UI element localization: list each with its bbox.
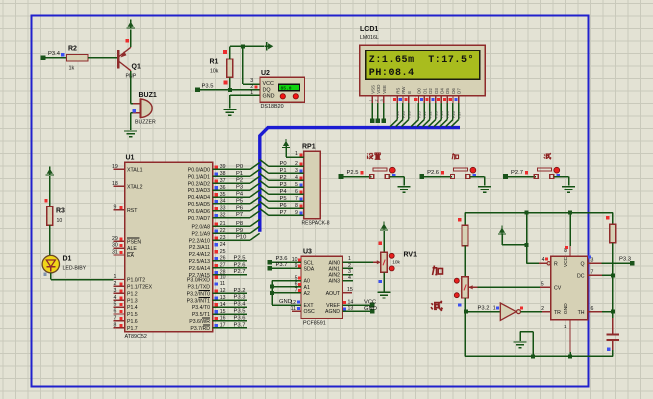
svg-text:U2: U2 — [261, 70, 270, 77]
svg-text:P9: P9 — [236, 228, 243, 234]
svg-text:P2.6: P2.6 — [427, 170, 439, 176]
svg-text:P2.7: P2.7 — [234, 269, 246, 275]
svg-text:RP1: RP1 — [302, 144, 316, 151]
svg-text:XTAL2: XTAL2 — [127, 184, 143, 190]
svg-text:P20: P20 — [396, 111, 400, 118]
svg-text:3: 3 — [380, 99, 384, 101]
svg-text:5: 5 — [541, 282, 544, 288]
svg-text:P22: P22 — [429, 111, 433, 118]
svg-text:P2.0/A8: P2.0/A8 — [192, 225, 211, 231]
svg-text:P1.3: P1.3 — [127, 298, 138, 304]
svg-text:EA: EA — [127, 253, 134, 259]
svg-text:PH:08.4: PH:08.4 — [369, 68, 415, 79]
svg-text:P0.1/AD1: P0.1/AD1 — [188, 174, 210, 180]
svg-text:AIN3: AIN3 — [328, 279, 340, 285]
svg-text:P3.5: P3.5 — [202, 84, 214, 90]
svg-text:SDA: SDA — [304, 267, 315, 273]
svg-text:LCD1: LCD1 — [360, 26, 378, 33]
svg-text:VSS: VSS — [370, 85, 375, 94]
svg-text:D7: D7 — [457, 88, 462, 94]
svg-text:4: 4 — [348, 275, 351, 281]
svg-text:2: 2 — [295, 161, 298, 167]
svg-text:18: 18 — [112, 181, 118, 187]
svg-text:RV1: RV1 — [404, 252, 418, 259]
svg-text:P23: P23 — [435, 111, 439, 118]
svg-text:P0.7/AD7: P0.7/AD7 — [188, 216, 210, 222]
svg-text:TH: TH — [578, 310, 585, 316]
svg-text:P3.4: P3.4 — [48, 51, 61, 57]
svg-text:4: 4 — [295, 175, 298, 181]
svg-text:P3.4: P3.4 — [234, 302, 247, 308]
svg-text:6: 6 — [295, 282, 298, 288]
svg-text:T:17.5°: T:17.5° — [428, 54, 474, 66]
svg-text:D0: D0 — [417, 88, 422, 94]
svg-text:P5: P5 — [236, 198, 243, 204]
svg-text:2: 2 — [541, 306, 544, 312]
svg-text:VREF: VREF — [326, 303, 340, 309]
svg-text:VCC: VCC — [364, 299, 376, 305]
svg-text:P3.7: P3.7 — [276, 262, 288, 268]
svg-text:P0.5/AD5: P0.5/AD5 — [188, 202, 210, 208]
svg-text:P2.6: P2.6 — [234, 262, 246, 268]
svg-text:P26: P26 — [452, 111, 456, 118]
svg-text:1k: 1k — [69, 66, 75, 72]
svg-text:P2.4/A12: P2.4/A12 — [189, 252, 210, 258]
svg-text:7: 7 — [114, 316, 117, 322]
svg-text:1: 1 — [295, 151, 298, 157]
svg-text:ALE: ALE — [127, 246, 137, 252]
svg-text:VCC: VCC — [563, 256, 569, 267]
svg-text:P3.2/INT0: P3.2/INT0 — [187, 291, 210, 297]
svg-text:R2: R2 — [68, 46, 77, 53]
svg-text:P2.5: P2.5 — [347, 170, 359, 176]
svg-text:1: 1 — [348, 256, 351, 262]
svg-text:P7: P7 — [280, 210, 287, 216]
svg-text:AIN1: AIN1 — [328, 267, 340, 273]
svg-text:3: 3 — [114, 288, 117, 294]
svg-text:30: 30 — [112, 243, 118, 249]
svg-text:LED-BIBY: LED-BIBY — [63, 266, 87, 272]
svg-text:15: 15 — [347, 287, 353, 293]
svg-text:D4: D4 — [439, 88, 444, 94]
svg-text:P2.7: P2.7 — [511, 170, 523, 176]
svg-text:DS18B20: DS18B20 — [261, 104, 284, 110]
svg-text:P2: P2 — [236, 178, 243, 184]
svg-text:7: 7 — [295, 288, 298, 294]
svg-text:VEE: VEE — [382, 85, 387, 94]
svg-text:8: 8 — [295, 203, 298, 209]
svg-text:EXT: EXT — [304, 303, 315, 309]
svg-text:P6: P6 — [236, 205, 243, 211]
svg-text:25: 25 — [220, 249, 226, 255]
svg-text:P3.7/RD: P3.7/RD — [190, 326, 210, 332]
svg-text:RS: RS — [395, 88, 400, 94]
svg-text:6: 6 — [591, 306, 594, 312]
svg-text:RESPACK-8: RESPACK-8 — [302, 221, 330, 227]
svg-text:P3.5: P3.5 — [234, 309, 246, 315]
svg-text:P1: P1 — [236, 171, 243, 177]
svg-text:PSEN: PSEN — [127, 239, 141, 245]
svg-text:9: 9 — [295, 210, 298, 216]
svg-text:P3.7: P3.7 — [234, 322, 246, 328]
svg-text:OSC: OSC — [304, 309, 315, 315]
svg-text:5: 5 — [295, 182, 298, 188]
svg-text:P20: P20 — [417, 111, 421, 118]
svg-text:P24: P24 — [440, 111, 444, 118]
svg-text:P1.4: P1.4 — [127, 305, 138, 311]
svg-text:P27: P27 — [458, 111, 462, 118]
svg-text:2: 2 — [374, 99, 378, 101]
svg-text:P8: P8 — [236, 221, 243, 227]
svg-text:TR: TR — [554, 310, 561, 316]
svg-text:U1: U1 — [126, 155, 135, 162]
svg-text:Q1: Q1 — [132, 64, 141, 71]
svg-text:1: 1 — [114, 274, 117, 280]
svg-text:P3.6/WR: P3.6/WR — [189, 319, 210, 325]
svg-text:RW: RW — [401, 86, 406, 94]
svg-text:D1: D1 — [422, 88, 427, 94]
svg-text:11: 11 — [220, 281, 225, 287]
svg-text:P0: P0 — [280, 161, 287, 167]
svg-text:CV: CV — [554, 285, 562, 291]
svg-text:R3: R3 — [56, 208, 65, 215]
svg-text:A1: A1 — [304, 285, 310, 291]
svg-text:PCF8591: PCF8591 — [303, 321, 326, 327]
svg-text:2: 2 — [348, 263, 351, 269]
svg-text:4: 4 — [542, 257, 545, 263]
svg-text:6: 6 — [295, 189, 298, 195]
svg-text:U3: U3 — [303, 249, 312, 256]
svg-text:P0.4/AD4: P0.4/AD4 — [188, 195, 210, 201]
svg-text:4: 4 — [114, 295, 117, 301]
svg-text:5: 5 — [295, 275, 298, 281]
svg-text:9: 9 — [114, 204, 117, 210]
svg-text:P3.1/TXD: P3.1/TXD — [188, 285, 211, 291]
svg-text:1: 1 — [369, 99, 373, 101]
svg-text:SCL: SCL — [304, 260, 314, 266]
svg-text:10k: 10k — [392, 260, 400, 266]
svg-text:RST: RST — [127, 208, 138, 214]
svg-text:P25: P25 — [446, 111, 450, 118]
svg-text:P0: P0 — [236, 164, 243, 170]
svg-text:P5: P5 — [280, 196, 287, 202]
svg-text:13: 13 — [348, 306, 354, 312]
svg-text:8: 8 — [114, 322, 117, 328]
svg-text:10k: 10k — [210, 69, 219, 75]
svg-text:P2.5/A13: P2.5/A13 — [189, 259, 210, 265]
svg-text:P0.0/AD0: P0.0/AD0 — [188, 168, 210, 174]
svg-text:P2.1/A9: P2.1/A9 — [192, 231, 211, 237]
svg-text:AIN0: AIN0 — [328, 260, 340, 266]
svg-text:VCC: VCC — [263, 81, 274, 87]
svg-text:Z:1.65m: Z:1.65m — [369, 55, 415, 66]
svg-text:P3.2: P3.2 — [478, 306, 490, 312]
svg-text:GND: GND — [263, 93, 275, 99]
svg-text:11: 11 — [291, 306, 296, 312]
svg-text:3: 3 — [295, 168, 298, 174]
svg-text:DC: DC — [577, 274, 585, 280]
svg-text:VDD: VDD — [376, 85, 381, 94]
svg-text:D1: D1 — [63, 256, 72, 263]
svg-text:GND: GND — [364, 306, 377, 312]
svg-text:P0.2/AD2: P0.2/AD2 — [188, 181, 210, 187]
svg-text:P3.5/T1: P3.5/T1 — [192, 312, 210, 318]
svg-text:P7: P7 — [236, 212, 243, 218]
svg-text:A0: A0 — [304, 279, 310, 285]
svg-text:P21: P21 — [423, 111, 427, 118]
svg-text:P20: P20 — [408, 111, 412, 118]
svg-text:XTAL1: XTAL1 — [127, 168, 143, 174]
svg-text:D6: D6 — [451, 88, 456, 94]
svg-text:D3: D3 — [434, 88, 439, 94]
svg-text:8: 8 — [564, 248, 567, 254]
svg-text:P1: P1 — [280, 168, 287, 174]
svg-text:14: 14 — [348, 299, 354, 305]
svg-text:31: 31 — [112, 250, 118, 256]
svg-text:D2: D2 — [428, 88, 433, 94]
svg-text:1: 1 — [564, 324, 567, 329]
svg-text:P3.3: P3.3 — [234, 295, 246, 301]
svg-text:P3: P3 — [236, 185, 243, 191]
svg-text:P6: P6 — [280, 203, 287, 209]
svg-text:85.0: 85.0 — [281, 85, 292, 91]
svg-text:29: 29 — [112, 236, 118, 242]
svg-text:E: E — [407, 91, 412, 94]
svg-text:P1.0/T2: P1.0/T2 — [127, 278, 145, 284]
svg-text:P2.3/A11: P2.3/A11 — [189, 245, 210, 251]
svg-text:P3.6: P3.6 — [234, 315, 246, 321]
svg-text:GND: GND — [563, 303, 569, 314]
svg-text:P3.4/T0: P3.4/T0 — [192, 305, 210, 311]
svg-text:3: 3 — [348, 269, 351, 275]
svg-text:1: 1 — [250, 90, 253, 96]
svg-text:Q: Q — [580, 261, 584, 267]
svg-text:P1.5: P1.5 — [127, 312, 138, 318]
svg-text:3: 3 — [250, 78, 253, 84]
svg-text:A2: A2 — [304, 291, 310, 297]
svg-text:P1.7: P1.7 — [127, 326, 138, 332]
svg-text:5: 5 — [114, 302, 117, 308]
svg-text:7: 7 — [295, 196, 298, 202]
svg-text:2: 2 — [114, 281, 117, 287]
svg-text:P4: P4 — [236, 192, 244, 198]
svg-text:P4: P4 — [280, 189, 288, 195]
svg-text:P3.0/RXD: P3.0/RXD — [187, 278, 210, 284]
svg-text:P10: P10 — [236, 235, 246, 241]
svg-text:AIN2: AIN2 — [328, 273, 340, 279]
svg-text:P2.5: P2.5 — [234, 255, 246, 261]
svg-text:P2: P2 — [280, 175, 287, 181]
svg-text:P3.6: P3.6 — [276, 256, 288, 262]
svg-text:R: R — [554, 261, 558, 267]
svg-text:12: 12 — [290, 300, 296, 306]
svg-text:24: 24 — [220, 242, 226, 248]
svg-text:P3: P3 — [280, 182, 287, 188]
svg-text:P0.6/AD6: P0.6/AD6 — [188, 209, 210, 215]
svg-text:P2.2/A10: P2.2/A10 — [189, 238, 210, 244]
svg-text:P2.6/A14: P2.6/A14 — [189, 266, 210, 272]
svg-text:P20: P20 — [402, 111, 406, 118]
svg-text:P3.3/INT1: P3.3/INT1 — [187, 298, 210, 304]
svg-text:7: 7 — [591, 270, 594, 276]
svg-text:BUZZER: BUZZER — [135, 120, 156, 126]
svg-text:P1.6: P1.6 — [127, 319, 138, 325]
svg-text:LM016L: LM016L — [360, 35, 379, 41]
svg-text:D5: D5 — [445, 88, 450, 94]
svg-text:AOUT: AOUT — [326, 291, 341, 297]
svg-text:6: 6 — [114, 309, 117, 315]
svg-text:R1: R1 — [210, 59, 219, 66]
svg-text:BUZ1: BUZ1 — [139, 92, 157, 99]
svg-text:19: 19 — [112, 164, 118, 170]
svg-text:P1.2: P1.2 — [127, 291, 138, 297]
svg-text:P3.2: P3.2 — [234, 288, 246, 294]
svg-text:1: 1 — [493, 306, 496, 312]
svg-text:AGND: AGND — [325, 309, 340, 315]
svg-text:P0.3/AD3: P0.3/AD3 — [188, 188, 210, 194]
svg-text:10: 10 — [57, 218, 63, 224]
svg-text:P1.1/T2EX: P1.1/T2EX — [127, 285, 153, 291]
svg-text:AT89C52: AT89C52 — [125, 334, 147, 340]
svg-text:P3.3: P3.3 — [619, 256, 631, 262]
svg-text:10: 10 — [220, 274, 226, 280]
